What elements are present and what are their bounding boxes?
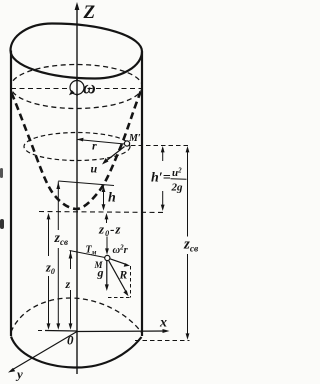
left dimension z0 line [48,215,50,256]
svg-text:h: h [108,191,116,206]
svg-text:0: 0 [67,333,74,348]
svg-text:R: R [119,270,128,282]
paraboloid free surface profile (dashed) [12,89,142,209]
rim level equator dashed line [11,88,142,90]
svg-text:z0-z: z0-z [98,222,121,239]
resultant vector R [109,261,127,294]
svg-text:g: g [97,266,104,280]
right dimension z_sv line [187,148,189,237]
cylinder top rim ellipse [11,24,143,79]
radius r line from axis to M' [78,140,125,145]
velocity vector u from M' [104,147,125,164]
svg-text:h′=: h′= [151,171,171,186]
svg-text:x: x [159,316,167,331]
dimension z line [70,251,72,270]
level line above point M [58,181,114,186]
svg-text:u: u [91,162,98,176]
cylinder bottom front arc [11,337,142,368]
centrifugal vector w2r [110,259,127,265]
bottom right dashed reference line [135,340,190,342]
svg-text:y: y [15,367,23,382]
cylinder left wall [10,51,12,337]
pointer line Tm to point M [70,251,106,258]
dimension z0-z [106,215,108,223]
level dashed line through M' to right dimensions [131,145,190,147]
svg-text:ω: ω [83,78,96,98]
point M' [124,141,129,146]
omega rotation circle [70,81,84,95]
parallel circle through M' (dashed ellipse) [24,133,130,161]
liquid rim level dashed ellipse [11,65,143,109]
scan artifact marks on left edge [0,168,3,178]
Z axis through omega circle [76,79,78,96]
X axis [77,330,166,333]
parallelogram dashed lines [130,266,132,298]
bottom reference line [38,330,45,332]
cylinder right wall [141,52,143,337]
gravity vector g [106,261,108,288]
left dimension z_sv line [57,182,59,231]
svg-text:M′: M′ [128,133,141,144]
right dimension h' [162,148,164,161]
Z axis [76,5,78,374]
cylinder bottom back arc (hidden, dashed) [11,298,142,333]
point M [105,255,110,260]
vertex level dashed line [39,212,165,213]
svg-text:z: z [65,277,71,291]
Y axis [11,332,77,371]
svg-text:Z: Z [83,2,96,23]
dimension h [103,188,105,208]
svg-text:r: r [92,139,97,153]
svg-text:2g: 2g [171,182,184,194]
